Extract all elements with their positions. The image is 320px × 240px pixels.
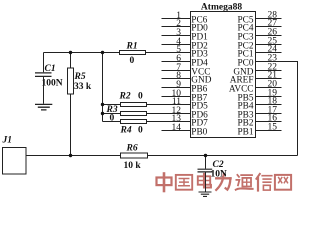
svg-text:J1: J1: [2, 135, 13, 145]
node junction top branch: [101, 51, 104, 54]
node junction R3: [101, 112, 104, 115]
wire R5 top: [70, 53, 72, 69]
watermark: [157, 174, 292, 192]
connector J1: [3, 148, 27, 175]
svg-text:R5: R5: [74, 72, 86, 82]
wire PC0 vertical: [256, 62, 298, 156]
svg-text:0: 0: [138, 126, 143, 136]
svg-text:0: 0: [138, 91, 143, 101]
wire C2 to ground: [205, 172, 207, 192]
ground under C2: [199, 192, 212, 196]
wire R2R3R4 branch vertical: [102, 53, 104, 122]
svg-text:PB1: PB1: [237, 128, 253, 138]
wire C2 stem: [205, 156, 207, 169]
node junction top R5: [69, 51, 72, 54]
svg-text:R1: R1: [126, 42, 138, 52]
svg-text:R6: R6: [126, 144, 138, 154]
svg-text:PB0: PB0: [191, 128, 207, 138]
wire C1 bottom: [43, 76, 45, 103]
wire top net PD3: [44, 52, 191, 54]
wire C1 stem: [43, 53, 45, 73]
node junction C2: [204, 154, 207, 157]
svg-text:C1: C1: [45, 64, 56, 74]
svg-text:100N: 100N: [42, 78, 63, 88]
capacitor C2: [198, 169, 213, 172]
resistor R1: [120, 51, 146, 55]
wire right pin leads: [256, 19, 282, 131]
svg-text:Atmega88: Atmega88: [201, 2, 242, 12]
svg-text:15: 15: [268, 123, 278, 133]
capacitor C1: [35, 73, 52, 77]
node junction bottom R5: [69, 154, 72, 157]
wire R5 bottom: [70, 94, 72, 156]
svg-text:R2: R2: [119, 91, 131, 101]
svg-text:0: 0: [110, 114, 115, 124]
wire bottom net J1-R6: [26, 155, 298, 157]
resistor R3: [121, 112, 147, 116]
wire R3 leads: [103, 113, 191, 115]
svg-text:0: 0: [130, 56, 135, 66]
wire R4 leads: [103, 121, 191, 123]
svg-text:R4: R4: [120, 126, 132, 136]
op-amp U1 Atmega88 box: [191, 12, 256, 138]
resistor R4: [121, 120, 147, 124]
node junction R2: [101, 103, 104, 106]
wire left pin leads: [162, 19, 191, 131]
svg-text:14: 14: [172, 123, 182, 133]
resistor R5: [68, 68, 74, 94]
resistor R6: [121, 153, 148, 158]
ground under C1: [35, 104, 52, 110]
svg-text:C2: C2: [213, 160, 224, 170]
svg-text:10N: 10N: [211, 169, 228, 179]
wire R2 leads: [103, 104, 191, 106]
svg-text:33 k: 33 k: [74, 82, 92, 92]
svg-text:10 k: 10 k: [124, 161, 142, 171]
resistor R2: [121, 103, 147, 107]
